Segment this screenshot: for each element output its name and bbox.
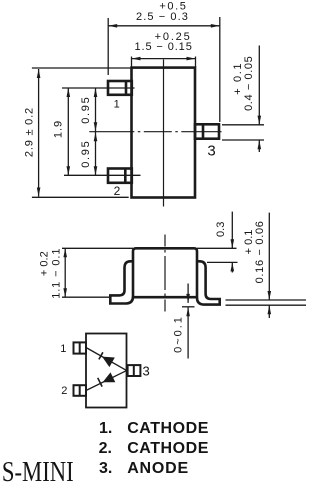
svg-text:S-MINI: S-MINI	[2, 456, 74, 484]
svg-text:0.4 − 0.05: 0.4 − 0.05	[243, 56, 255, 111]
svg-text:2: 2	[61, 385, 67, 397]
svg-text:0.95: 0.95	[80, 96, 92, 124]
svg-text:0~0.1: 0~0.1	[173, 315, 185, 353]
svg-text:ANODE: ANODE	[127, 460, 189, 477]
svg-text:0.95: 0.95	[80, 140, 92, 168]
svg-text:3: 3	[207, 142, 215, 159]
svg-text:2.9 ± 0.2: 2.9 ± 0.2	[24, 107, 36, 157]
svg-text:3: 3	[142, 364, 149, 379]
svg-text:1.9: 1.9	[53, 120, 65, 138]
svg-text:1: 1	[114, 98, 120, 110]
svg-text:1.5 − 0.15: 1.5 − 0.15	[134, 41, 192, 53]
svg-text:2: 2	[114, 184, 121, 198]
svg-text:+ 0.2: + 0.2	[39, 251, 51, 276]
svg-text:1.: 1.	[99, 420, 112, 437]
svg-text:2.: 2.	[99, 440, 112, 457]
svg-text:CATHODE: CATHODE	[127, 420, 209, 437]
svg-text:1: 1	[60, 343, 66, 355]
svg-text:0.16 − 0.06: 0.16 − 0.06	[254, 220, 266, 283]
svg-text:2.5 − 0.3: 2.5 − 0.3	[136, 11, 189, 23]
svg-text:3.: 3.	[99, 460, 112, 477]
svg-text:0.3: 0.3	[215, 222, 227, 237]
svg-text:CATHODE: CATHODE	[127, 440, 209, 457]
svg-text:1.1 − 0.1: 1.1 − 0.1	[50, 248, 62, 299]
